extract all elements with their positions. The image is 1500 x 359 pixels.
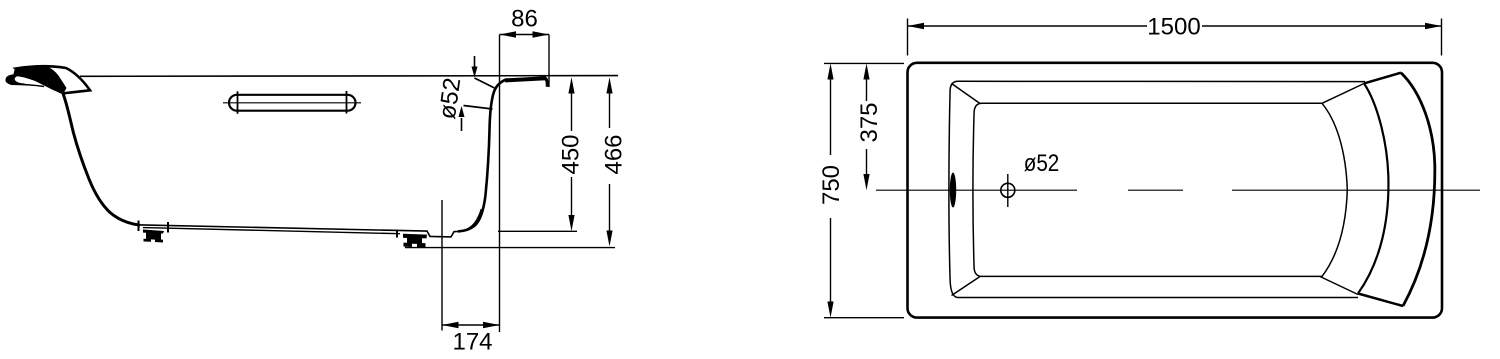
1500 right extension line (1441, 19, 1443, 56)
750 bottom extension line (824, 317, 904, 319)
handle tick left (237, 91, 239, 114)
1500 left arrow (908, 23, 925, 29)
vertical extension line (86 left / 174 right) (499, 35, 501, 333)
left foot clamp ticks (138, 221, 140, 232)
corner diagonal TL (952, 84, 981, 104)
left wall (63, 94, 140, 226)
466 bottom arrow (606, 231, 612, 247)
466 bottom extension line (405, 247, 615, 249)
right wall (458, 80, 506, 232)
750 bottom arrow (827, 302, 833, 318)
450 top arrow (568, 77, 574, 93)
450 dimension line (571, 92, 573, 217)
headrest roll (filled band) (13, 66, 67, 93)
svg-text:450: 450 (558, 134, 585, 174)
left foot bracket (143, 230, 164, 243)
750 top extension line (824, 62, 904, 64)
1500 right arrow (1425, 23, 1442, 29)
750 top arrow (827, 63, 833, 79)
headrest band inner arc (1358, 83, 1388, 293)
rim deck (505, 78, 546, 80)
466 dimension line (609, 92, 611, 232)
headrest rim hook (5, 74, 26, 85)
drain tick (1007, 174, 1009, 207)
corner diagonal BR (1320, 277, 1358, 295)
o52 top edge leader line (475, 78, 495, 88)
o52 lower arrow (461, 118, 463, 131)
375 top arrow (863, 63, 869, 79)
svg-text:375: 375 (856, 102, 883, 142)
svg-text:86: 86 (511, 5, 538, 32)
86 dimension line (500, 34, 550, 36)
86 right extension line (548, 35, 550, 88)
rim deck hook (545, 78, 548, 87)
174 dimension line (442, 324, 500, 326)
tub rim line (80, 75, 618, 78)
375 bottom arrow (863, 174, 869, 190)
svg-text:ø52: ø52 (1024, 150, 1060, 177)
rim opening outline (949, 81, 1365, 297)
o52 bottom edge leader line (464, 106, 493, 110)
svg-text:174: 174 (452, 328, 492, 355)
handle (229, 95, 356, 111)
corner diagonal TR (1322, 84, 1364, 104)
headrest bottom tip (1358, 294, 1403, 307)
drain clamp tick (396, 230, 398, 238)
svg-text:750: 750 (818, 165, 845, 205)
o52 upper arrow (474, 56, 476, 70)
svg-text:466: 466 (601, 134, 628, 174)
drain circle (1001, 183, 1015, 197)
overflow blob (950, 173, 956, 208)
174 left extension line (441, 200, 443, 331)
floor outline (973, 103, 1347, 276)
svg-text:ø52: ø52 (434, 76, 466, 121)
centerline segment 2 (1128, 189, 1183, 191)
174 left arrow (442, 322, 459, 328)
450 bottom extension line (498, 230, 577, 232)
tub bottom outer line (143, 228, 400, 234)
375 dimension line (866, 79, 868, 175)
headrest underside line (11, 84, 44, 86)
1500 dimension line (908, 25, 1442, 27)
centerline segment 3 (1232, 189, 1480, 191)
headrest band outer arc (1401, 73, 1435, 306)
tub bottom inner line (136, 209, 482, 237)
headrest top tip (1364, 73, 1401, 84)
centerline segment 1 (876, 189, 1077, 191)
174 right arrow (483, 322, 500, 328)
headrest pillow (16, 66, 90, 93)
86 right arrow (533, 31, 550, 37)
86 left arrow (500, 31, 517, 37)
handle tick right (346, 91, 348, 114)
svg-text:1500: 1500 (1147, 14, 1200, 41)
corner diagonal BL (952, 277, 981, 296)
466 top arrow (606, 77, 612, 93)
750 dimension line (830, 79, 832, 302)
1500 left extension line (907, 19, 909, 56)
drain fitting (403, 234, 427, 248)
450 bottom arrow (568, 215, 574, 231)
outer rim rectangle (908, 63, 1443, 318)
handle centerline (223, 102, 361, 104)
